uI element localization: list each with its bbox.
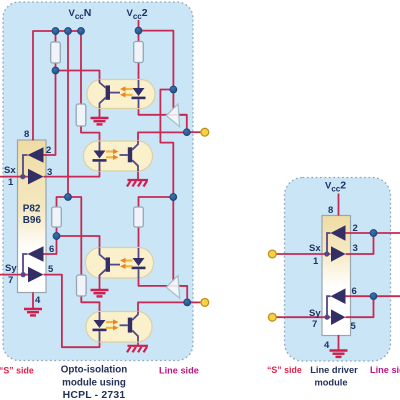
- node E: [183, 129, 190, 136]
- svg-text:module using: module using: [62, 378, 126, 389]
- svg-text:2: 2: [353, 223, 358, 234]
- wire R4 to node F: [56, 227, 58, 236]
- ground G3: [91, 290, 109, 296]
- buffer U3A: [327, 225, 346, 254]
- svg-text:2: 2: [46, 145, 51, 156]
- wire node B to R4: [57, 197, 69, 207]
- svg-text:Line driver: Line driver: [310, 365, 358, 375]
- svg-text:B96: B96: [23, 215, 42, 226]
- wire node C to buffer U2A input: [172, 90, 174, 109]
- svg-text:1: 1: [313, 256, 319, 267]
- wire pin 5 to D4 cathode: [44, 275, 100, 348]
- light arrows OC2: [106, 149, 119, 160]
- wire pin 3 to D2 cathode: [44, 171, 100, 177]
- phototransistor Q4: [120, 312, 139, 342]
- wire pin 3 to node H: [346, 233, 374, 254]
- node H: [370, 230, 377, 237]
- node bus3: [78, 28, 85, 35]
- phototransistor Q2: [120, 141, 139, 171]
- wire node D to R5: [139, 197, 174, 207]
- wire Q4 collector to node G: [138, 302, 187, 312]
- wire pin 4 to ground G6: [338, 335, 340, 350]
- wire pin 2 to line: [346, 232, 400, 234]
- wire Q2 collector to node E: [138, 132, 187, 141]
- svg-text:4: 4: [324, 340, 330, 351]
- svg-text:Sy: Sy: [309, 308, 321, 319]
- optocoupler OC1 body: [87, 80, 155, 109]
- caption S side right: [267, 365, 302, 375]
- svg-text:5: 5: [351, 321, 357, 332]
- node Vcc2: [135, 27, 142, 34]
- caption right module: [310, 365, 358, 388]
- svg-text:“S” side: “S” side: [267, 365, 302, 375]
- node F: [53, 233, 60, 240]
- light arrows OC1: [120, 86, 133, 97]
- wire R1 to node A: [55, 63, 57, 71]
- wire node A to pin 2: [44, 71, 56, 156]
- buffer U1B: [28, 169, 44, 185]
- resistor R1: [51, 42, 61, 63]
- svg-text:Sx: Sx: [309, 243, 321, 254]
- node pin1: [20, 174, 25, 179]
- node bus1: [52, 28, 59, 35]
- svg-text:8: 8: [24, 129, 29, 140]
- LED D4: [93, 312, 107, 342]
- ground G4: [127, 346, 148, 353]
- wire node A to Q1 collector: [56, 71, 100, 82]
- caption Line side left: [159, 366, 199, 376]
- svg-text:module: module: [314, 378, 347, 388]
- buffer U3D: [331, 309, 346, 325]
- svg-text:7: 7: [8, 275, 13, 286]
- buffer U2B: [166, 276, 179, 299]
- LED D3: [132, 248, 146, 279]
- label Vcc2 left: [127, 7, 148, 21]
- svg-text:6: 6: [49, 244, 54, 255]
- wire terminal T4 to pin 7: [276, 316, 331, 318]
- wire Vcc2 to R3: [138, 20, 140, 42]
- phototransistor Q3: [100, 248, 121, 279]
- ground G5: [24, 309, 42, 315]
- node I: [370, 293, 377, 300]
- terminal T2: [201, 299, 209, 307]
- terminal T3: [268, 250, 276, 258]
- ground G6: [330, 351, 348, 357]
- wire pin 6 to line: [346, 295, 400, 297]
- ground G2: [127, 180, 148, 187]
- caption Line side right: [370, 365, 400, 375]
- node B: [65, 194, 72, 201]
- node bus2: [65, 28, 72, 35]
- opto-isolation module panel: [3, 2, 193, 361]
- wire D1 cathode to U2A tip: [139, 107, 187, 115]
- ground G1: [91, 118, 109, 124]
- wire line bus bypass: [160, 90, 173, 282]
- wire node G to terminal T2: [187, 301, 200, 303]
- svg-text:5: 5: [48, 264, 54, 275]
- svg-text:P82: P82: [23, 204, 41, 215]
- wire node F to pin 6: [44, 236, 57, 254]
- wire Q2 emitter to ground G2: [137, 171, 139, 180]
- wire R2 to D2 anode: [81, 126, 100, 142]
- buffer U1C: [23, 246, 44, 274]
- phototransistor Q1: [100, 80, 121, 109]
- buffer U3B: [331, 246, 346, 262]
- optocoupler OC3 body: [86, 248, 154, 279]
- caption left module: [61, 365, 127, 400]
- buffer U3C: [327, 288, 346, 317]
- node D: [170, 194, 177, 201]
- resistor R6: [77, 275, 87, 296]
- label VccN: [69, 7, 92, 21]
- wire R3 to D1 anode: [138, 62, 140, 81]
- wire VccN bus to R1: [55, 31, 57, 42]
- wire Sx input: [0, 176, 29, 178]
- pin labels right chip: [309, 205, 358, 351]
- resistor R3: [134, 42, 144, 63]
- svg-text:“S” side: “S” side: [0, 366, 34, 376]
- light arrows OC4: [106, 319, 119, 330]
- wire pin 4 to ground G5: [32, 293, 34, 309]
- svg-text:7: 7: [312, 319, 317, 330]
- wire pin 5 to node I: [346, 296, 374, 317]
- terminals: [201, 128, 276, 321]
- node pin7: [21, 272, 26, 277]
- svg-text:8: 8: [328, 205, 333, 216]
- wire Vcc2 node to line bus: [139, 31, 174, 90]
- node pin1R: [324, 251, 329, 256]
- node pin7R: [324, 315, 329, 320]
- line driver U3 body: [322, 216, 351, 336]
- buffer U1A: [23, 147, 44, 176]
- wire Q3 emitter to ground G3: [99, 278, 101, 289]
- svg-text:4: 4: [35, 295, 41, 306]
- svg-text:Sx: Sx: [4, 165, 16, 176]
- LED D1: [132, 80, 146, 108]
- terminal T1: [201, 128, 209, 136]
- svg-text:1: 1: [8, 177, 14, 188]
- wire node E to terminal T1: [187, 131, 201, 133]
- wire node B to R6: [68, 197, 81, 275]
- node G: [184, 299, 191, 306]
- wire node F to Q3 collector: [57, 236, 100, 248]
- svg-text:HCPL - 2731: HCPL - 2731: [63, 390, 126, 400]
- terminal T4: [268, 313, 276, 321]
- wire Q1 emitter to ground G1: [99, 107, 101, 117]
- label Vcc2 right: [325, 180, 346, 194]
- pin junction dots: [20, 174, 329, 320]
- light arrows OC3: [120, 258, 133, 269]
- svg-text:6: 6: [352, 286, 357, 297]
- svg-text:Sy: Sy: [5, 263, 17, 274]
- svg-text:3: 3: [353, 243, 358, 254]
- buffer U1D: [28, 267, 44, 283]
- wire R6 to D4 anode: [81, 296, 99, 313]
- wire Vcc2 to pin 8: [338, 194, 340, 216]
- svg-text:Line side: Line side: [370, 365, 400, 375]
- wire U2A output to node E: [180, 115, 187, 132]
- wire D3 cathode to U2B tip: [139, 278, 188, 286]
- caption S side left: [0, 366, 34, 376]
- wire R5 to D3 anode: [138, 227, 140, 249]
- svg-text:Opto-isolation: Opto-isolation: [61, 365, 127, 376]
- wire VccN bus to node B: [67, 31, 69, 197]
- svg-text:Line side: Line side: [159, 366, 199, 376]
- line driver module panel: [285, 178, 391, 362]
- wire U2B output to node G: [180, 286, 187, 303]
- wire Sy input: [0, 274, 29, 276]
- pin labels left chip: [4, 129, 54, 306]
- wire VccN bus to R2: [80, 31, 82, 104]
- wire Q4 emitter to ground G4: [137, 342, 139, 346]
- node A: [52, 67, 59, 74]
- wire terminal T3 to pin 1: [276, 253, 331, 255]
- optocoupler OC2 body: [84, 141, 153, 171]
- chip name P82 B96: [23, 204, 42, 227]
- LED D2: [93, 142, 107, 172]
- resistor R5: [134, 207, 144, 227]
- wire VccN bus to pin 8: [33, 31, 81, 141]
- op-amp U1 body: [18, 140, 47, 293]
- resistor R4: [52, 207, 62, 227]
- node C: [170, 86, 177, 93]
- buffer U2A: [166, 104, 179, 127]
- svg-text:3: 3: [47, 167, 52, 178]
- optocoupler OC4 body: [86, 312, 152, 343]
- resistor R2: [76, 104, 86, 126]
